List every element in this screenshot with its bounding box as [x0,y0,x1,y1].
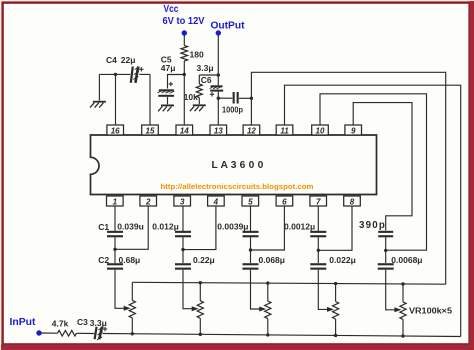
svg-text:0.68μ: 0.68μ [119,255,141,265]
node junction column 4 [317,249,320,252]
wire cap to wiper [183,270,192,309]
node junction column 1 [113,248,116,251]
wire cap to junction [250,237,252,250]
node junction Vcc/C5 [183,73,186,76]
pin 1 [107,196,124,206]
svg-text:390p: 390p [359,220,386,231]
node junction output/10k [217,73,220,76]
potentiometer VR2 100k [192,281,204,336]
wire pot top bus [132,282,445,284]
wire C6 junction to 1000p [218,97,232,99]
svg-text:180: 180 [190,50,204,60]
svg-text:15: 15 [146,126,155,135]
OutPut label [211,20,245,32]
pin 10 [312,125,329,135]
wire Vcc down to R 180 [183,36,185,46]
pin 15 [142,125,159,135]
ground for C5 [158,105,174,112]
node junction E [384,249,387,252]
svg-text:6V to 12V: 6V to 12V [163,15,205,27]
svg-text:3: 3 [180,197,185,206]
capacitor 0.22u [175,250,215,270]
capacitor 0.0068u [378,250,423,269]
wire cap to wiper [251,270,260,309]
wire pin 8 to junction [318,206,352,250]
wire C4 left to ground [98,74,100,100]
svg-text:0.22μ: 0.22μ [193,255,215,265]
svg-text:0.022μ: 0.022μ [329,255,355,265]
svg-text:http://allelectronicscircuits.: http://allelectronicscircuits.blogspot.c… [161,182,314,191]
wire cap to junction [317,237,319,250]
pin 16 [107,125,124,135]
wire OutPut down to pin 13 [217,36,219,126]
capacitor C3 3.3u [77,317,107,340]
svg-text:10k: 10k [184,92,198,102]
svg-text:OutPut: OutPut [211,20,245,32]
svg-text:0.0039μ: 0.0039μ [217,222,248,232]
capacitor C4 22u [106,55,144,83]
wire 390p to junction E [385,237,387,250]
svg-text:C3: C3 [77,317,88,327]
wire pin 4 to junction [183,206,216,250]
svg-text:4: 4 [213,197,219,206]
svg-text:1: 1 [113,197,118,206]
node OutPut terminal [216,30,221,35]
capacitor 0.068u [243,250,285,270]
node junction column 2 [181,248,184,251]
svg-text:C6: C6 [201,75,212,85]
svg-text:11: 11 [280,126,289,135]
svg-text:0.012μ: 0.012μ [152,222,178,232]
node InPut terminal [36,330,41,335]
svg-text:2: 2 [145,197,151,206]
resistor 10k [184,84,203,102]
wire C5 branch [168,75,185,89]
capacitor 390p [359,220,393,237]
svg-text:22μ: 22μ [121,55,136,65]
wire pin 7 to cap [317,206,319,231]
ground for C4 [90,101,106,108]
svg-text:0.0012μ: 0.0012μ [284,222,315,232]
wire pin 6 to junction [251,206,285,250]
capacitor 0.0012u [284,222,326,238]
wire 4.7k to C3 [77,332,95,334]
decorative red border frame [0,0,1,350]
capacitor C4 22u wire [99,73,150,75]
node junction column 3 [249,248,252,251]
wire R180 to pin 14 [183,61,185,125]
svg-text:0.0068μ: 0.0068μ [391,255,422,265]
svg-text:InPut: InPut [10,316,36,328]
pin 12 [243,125,260,135]
svg-text:0.039u: 0.039u [117,222,143,232]
svg-text:5: 5 [248,197,253,206]
svg-text:47μ: 47μ [161,63,176,73]
wire pin 12 to pot bus [251,72,445,284]
wire pin 3 to cap [182,206,184,231]
wire C4 to pin 15 [149,74,151,125]
capacitor C6 3.3u [197,63,224,97]
svg-text:VR100k×5: VR100k×5 [409,306,452,316]
wire junction to pin 16 [115,74,117,125]
svg-text:0.068μ: 0.068μ [259,255,285,265]
pin 2 [140,196,157,206]
svg-text:C1: C1 [98,222,109,232]
pin 14 [176,125,193,135]
svg-text:3.3μ: 3.3μ [90,318,107,328]
resistor 4.7k [52,318,77,336]
pin 11 [276,125,293,135]
wire cap to wiper [386,270,395,310]
potentiometer VR3 100k [259,281,271,336]
capacitor C2 0.68u [98,249,140,269]
svg-text:6: 6 [282,197,287,206]
node junction pin16/C4 [114,73,117,76]
wire 1000p to pin 12 line [239,97,251,99]
wire pin 1 to cap [114,206,116,231]
potentiometer VR1 100k [124,282,136,335]
ground for 10k [190,104,206,111]
pin 4 [208,196,225,206]
InPut label [10,316,36,328]
svg-text:9: 9 [351,126,356,135]
wire cap to junction [182,237,184,249]
wire pin 9 to 390p [353,103,412,231]
node junction C6/1000p [217,97,220,100]
wire cap to wiper [115,270,124,309]
capacitor C1 0.039u [98,222,144,238]
pin 6 [276,196,293,206]
Vcc label [163,3,205,27]
svg-text:3.3μ: 3.3μ [197,63,214,73]
pin 7 [310,196,327,206]
node Vcc terminal [182,30,187,35]
svg-text:Vcc: Vcc [164,3,179,15]
resistor 180 [181,46,204,62]
svg-text:16: 16 [111,126,120,135]
op-amp U1 LA3600 IC body [91,135,377,195]
wire pin 5 to cap [250,206,252,231]
wire cap to wiper [318,270,327,310]
svg-text:13: 13 [214,126,223,135]
capacitor C5 47u [158,55,176,105]
potentiometer VR4 100k [327,282,339,337]
wire cap to junction [114,237,116,249]
svg-text:10: 10 [316,126,325,135]
svg-text:12: 12 [247,126,256,135]
pin 3 [174,196,191,206]
wire 10k branch [199,75,218,84]
pin 13 [210,125,227,135]
wire input bus [103,334,461,337]
capacitor 0.0039u [217,222,258,238]
wire pin 2 to junction [115,206,148,249]
svg-text:1000p: 1000p [222,104,243,114]
svg-text:L A 3 6 0 0: L A 3 6 0 0 [212,160,264,171]
svg-text:4.7k: 4.7k [52,318,69,328]
pin 5 [242,196,259,206]
svg-text:8: 8 [350,197,355,206]
label VR 100k x 5 [409,306,452,316]
svg-text:7: 7 [316,197,321,206]
wire pin 10 to node E [320,94,427,250]
potentiometer VR5 100k [394,282,406,337]
svg-text:14: 14 [180,126,189,135]
capacitor 0.012u [152,222,191,238]
wire input to 4.7k [42,332,58,334]
wire pin 11 to input bus [285,85,461,336]
pin 8 [344,196,361,206]
capacitor 1000p [222,92,243,114]
node junction 1000p/pin12 [250,97,253,100]
wire 10k to ground [198,98,200,105]
svg-text:C2: C2 [98,255,109,265]
capacitor 0.022u [310,250,355,269]
pin 9 [345,125,362,135]
svg-text:C4: C4 [106,55,117,65]
